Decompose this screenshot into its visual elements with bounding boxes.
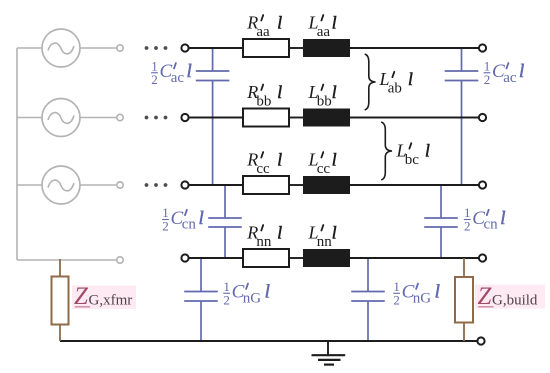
wire phase c segment 2	[289, 184, 303, 186]
capacitor 1/2 C'cn right	[424, 185, 458, 258]
svg-text:Ccn: Ccn	[171, 208, 197, 233]
wire phase a segment 1	[189, 47, 243, 49]
svg-text:l: l	[277, 12, 282, 32]
label 1/2 C'ac l left	[151, 58, 158, 87]
svg-text:l: l	[277, 82, 282, 102]
node terminal c right	[479, 181, 486, 188]
svg-text:Lab: Lab	[379, 69, 402, 97]
capacitor 1/2 C'nG right	[351, 258, 385, 341]
wire phase b segment 3	[350, 117, 479, 119]
svg-text:Rcc: Rcc	[246, 149, 270, 177]
capacitor 1/2 C'ac right	[445, 48, 479, 185]
svg-text:G,xfmr: G,xfmr	[89, 293, 133, 309]
wire Z_G,build top lead	[463, 258, 465, 277]
svg-text:l: l	[332, 149, 337, 169]
impedance Z_G,xfmr	[52, 277, 69, 325]
capacitor 1/2 C'nG left	[184, 258, 218, 341]
svg-text:l: l	[332, 222, 337, 242]
inductor L'bb	[303, 109, 350, 127]
label 1/2 C'nG l left	[223, 279, 230, 308]
ellipsis dots phase a	[145, 46, 168, 50]
node terminal b left	[181, 114, 188, 121]
node gray terminal Va	[117, 45, 123, 51]
wire gray left bus	[16, 48, 18, 260]
svg-text:2: 2	[162, 219, 169, 234]
svg-text:l: l	[425, 140, 430, 160]
svg-text:l: l	[277, 222, 282, 242]
brace mutual inductance L'ab	[365, 54, 376, 110]
node terminal c left	[181, 181, 188, 188]
wire gray neutral return	[17, 259, 117, 261]
wire phase c segment 3	[350, 184, 479, 186]
label Z_G,build	[475, 283, 545, 310]
svg-text:2: 2	[223, 292, 230, 307]
svg-text:l: l	[435, 282, 440, 303]
svg-text:G,build: G,build	[492, 293, 538, 309]
node gray terminal Vb	[117, 114, 123, 120]
svg-text:Lcc: Lcc	[308, 149, 331, 177]
inductor L'aa	[303, 39, 350, 57]
svg-text:Lbc: Lbc	[396, 140, 420, 168]
svg-text:Lbb: Lbb	[308, 82, 332, 110]
svg-text:Cac: Cac	[492, 61, 517, 86]
wire phase n segment 1	[189, 257, 243, 259]
svg-text:Cac: Cac	[160, 61, 185, 86]
node terminal n left	[181, 254, 188, 261]
wire source Vc right lead	[80, 184, 117, 186]
wire phase b segment 1	[189, 117, 243, 119]
wire phase n segment 3	[350, 257, 479, 259]
svg-text:l: l	[408, 69, 413, 89]
wire phase a segment 2	[289, 47, 303, 49]
wire phase n segment 2	[289, 257, 303, 259]
inductor L'cc	[303, 176, 350, 194]
resistor R'aa	[243, 39, 289, 57]
svg-text:Ccn: Ccn	[472, 208, 498, 233]
label 1/2 C'cn l right	[464, 205, 471, 234]
wire Z_G,xfmr bottom lead	[59, 325, 61, 342]
label 1/2 C'cn l left	[162, 205, 169, 234]
wire source Va left lead	[17, 47, 42, 49]
label Z_G,xfmr	[72, 283, 136, 310]
wire Z_G,build bottom lead	[463, 323, 465, 342]
label 1/2 C'nG l right	[393, 279, 400, 308]
svg-text:l: l	[332, 82, 337, 102]
resistor R'cc	[243, 176, 289, 194]
resistor R'bb	[243, 109, 289, 127]
wire phase b segment 2	[289, 117, 303, 119]
inductor L'nn	[303, 249, 350, 267]
node gray terminal Vc	[117, 182, 123, 188]
svg-text:Z: Z	[74, 283, 89, 310]
svg-text:l: l	[332, 12, 337, 32]
svg-text:l: l	[277, 149, 282, 169]
ac source Vb	[42, 99, 80, 137]
wire source Va right lead	[80, 47, 117, 49]
svg-text:l: l	[519, 61, 524, 82]
svg-text:Raa: Raa	[246, 12, 270, 40]
svg-text:2: 2	[464, 219, 471, 234]
wire source Vc left lead	[17, 184, 42, 186]
ellipsis dots phase c	[145, 183, 168, 187]
brace mutual inductance L'bc	[381, 122, 392, 180]
svg-text:l: l	[199, 208, 204, 229]
svg-text:Z: Z	[478, 283, 493, 310]
svg-text:CnG: CnG	[232, 282, 262, 307]
svg-text:2: 2	[393, 292, 400, 307]
svg-text:Rbb: Rbb	[246, 82, 271, 110]
svg-text:Laa: Laa	[308, 12, 331, 40]
svg-text:CnG: CnG	[402, 282, 432, 307]
wire source Vb left lead	[17, 117, 42, 119]
ground	[312, 341, 346, 365]
ellipsis dots phase b	[145, 116, 168, 120]
impedance Z_G,build	[455, 277, 473, 323]
node terminal b right	[479, 114, 486, 121]
capacitor 1/2 C'ac left	[196, 48, 230, 185]
wire ground bus	[60, 340, 478, 342]
node terminal n right	[479, 254, 486, 261]
svg-text:2: 2	[484, 72, 491, 87]
ac source Va	[42, 29, 80, 67]
wire phase c segment 1	[189, 184, 243, 186]
wire source Vb right lead	[80, 117, 117, 119]
label 1/2 C'ac l right	[484, 58, 491, 87]
capacitor 1/2 C'cn left	[208, 185, 242, 258]
svg-text:Rnn: Rnn	[246, 222, 272, 250]
wire phase a segment 3	[350, 47, 479, 49]
resistor R'nn	[243, 249, 289, 267]
svg-text:2: 2	[151, 72, 158, 87]
svg-text:l: l	[187, 61, 192, 82]
ac source Vc	[42, 166, 80, 204]
node terminal a left	[181, 44, 188, 51]
node gray terminal return	[117, 257, 123, 263]
svg-text:l: l	[265, 282, 270, 303]
node terminal ground right	[477, 337, 484, 344]
node terminal a right	[479, 44, 486, 51]
svg-text:l: l	[500, 208, 505, 229]
wire Z_G,xfmr top lead	[59, 259, 61, 277]
svg-text:Lnn: Lnn	[308, 222, 333, 250]
